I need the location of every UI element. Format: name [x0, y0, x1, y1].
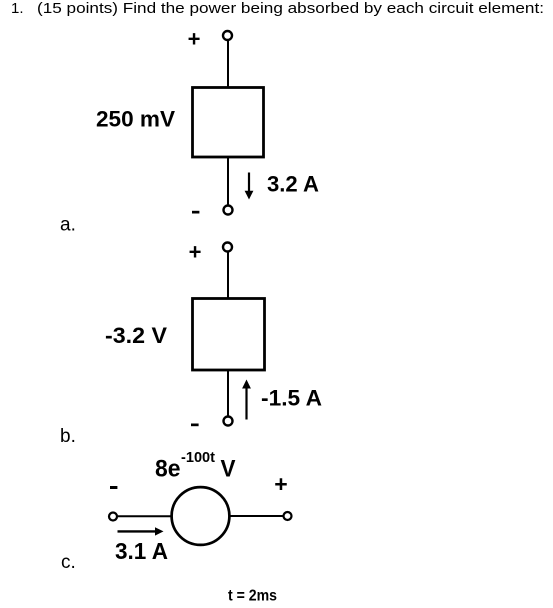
svg-text:3.1 A: 3.1 A [115, 538, 168, 564]
current arrow 3.1 A (right) [118, 527, 164, 535]
polarity - label (part c left) [110, 486, 117, 489]
wire: box A to bottom terminal a [227, 157, 229, 205]
svg-text:(15 points) Find the power bei: (15 points) Find the power being absorbe… [37, 0, 544, 17]
source value label 8e^-100t V [155, 449, 236, 483]
svg-text:a.: a. [60, 215, 76, 236]
svg-text:t = 2ms: t = 2ms [228, 587, 277, 604]
wire: terminal b top to box B [227, 252, 229, 298]
wire: box B to bottom terminal b [227, 370, 229, 417]
svg-text:1.: 1. [11, 0, 24, 17]
node: bottom terminal b [224, 417, 233, 426]
wire: source circle to right terminal [230, 515, 283, 517]
svg-text:V: V [221, 456, 236, 483]
wire: left terminal to source circle [118, 515, 171, 517]
node: top terminal a [223, 31, 232, 40]
current arrow -1.5 A (up) [242, 380, 251, 420]
svg-text:250 mV: 250 mV [96, 107, 175, 132]
current arrow 3.2 A (down) [245, 173, 254, 200]
svg-text:-3.2 V: -3.2 V [105, 323, 167, 348]
node: top terminal b [223, 243, 232, 252]
svg-text:+: + [189, 240, 202, 265]
element box A [193, 88, 264, 158]
svg-text:+: + [274, 471, 287, 497]
node: bottom terminal a [224, 206, 233, 215]
node: right terminal c [284, 512, 292, 520]
node: left terminal c [109, 513, 117, 521]
svg-text:8e: 8e [155, 456, 181, 483]
source circle U (part c) [172, 487, 230, 545]
polarity - label (part b bottom) [191, 424, 199, 427]
svg-text:-1.5 A: -1.5 A [261, 385, 322, 410]
svg-text:-100t: -100t [181, 449, 215, 466]
svg-text:+: + [188, 27, 201, 52]
polarity - label (part a bottom) [192, 211, 199, 214]
wire: terminal a top to box A [227, 41, 229, 88]
svg-text:b.: b. [60, 426, 76, 447]
element box B [193, 299, 265, 371]
svg-text:c.: c. [61, 552, 76, 573]
svg-text:3.2 A: 3.2 A [267, 171, 319, 196]
